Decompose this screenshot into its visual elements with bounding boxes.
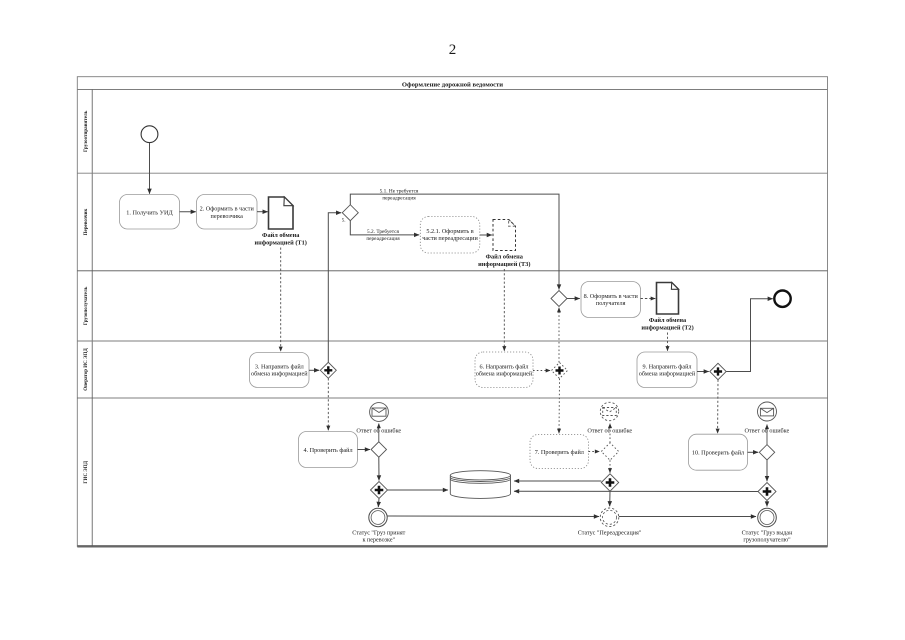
svg-text:ГИС ЭПД: ГИС ЭПД bbox=[84, 460, 89, 483]
svg-text:8. Оформить в части: 8. Оформить в части bbox=[584, 293, 639, 300]
wire task2 to doc T1 bbox=[257, 211, 268, 213]
wire task10 to gateway10 bbox=[748, 451, 759, 453]
svg-text:Оператор ИС ЭПД: Оператор ИС ЭПД bbox=[84, 348, 89, 391]
gateway-plus-6 bbox=[758, 483, 776, 501]
wire doc T3 to task6 (dotted) bbox=[503, 269, 505, 351]
task 2. Оформить в части перевозчика bbox=[197, 195, 258, 230]
svg-text:1. Получить УИД: 1. Получить УИД bbox=[126, 209, 173, 216]
label Статус Груз выдан грузополучателю bbox=[742, 531, 793, 544]
wire gateway-plus-2 up to lane3 gateway (dashed) bbox=[558, 308, 560, 363]
svg-text:Статус "Груз принят: Статус "Груз принят bbox=[352, 531, 405, 537]
message event 1 (Ответ об ошибке) bbox=[370, 403, 389, 422]
svg-text:Ответ об ошибке: Ответ об ошибке bbox=[356, 428, 401, 435]
wire gateway-plus-3 down to task10 (dotted) bbox=[717, 380, 719, 434]
wire gateway-plus-5 down to status2 bbox=[609, 491, 611, 506]
svg-text:грузополучателю": грузополучателю" bbox=[743, 538, 791, 544]
gateway-plus-3 bbox=[710, 363, 726, 379]
svg-text:6. Направить файл: 6. Направить файл bbox=[480, 363, 529, 370]
document T3 (dashed) bbox=[493, 220, 516, 251]
svg-text:Грузополучатель: Грузополучатель bbox=[84, 286, 89, 325]
task 5.2.1 Оформить в части переадресации (dashed) bbox=[420, 217, 480, 254]
end event bbox=[774, 291, 790, 307]
svg-text:5.2.1. Оформить в: 5.2.1. Оформить в bbox=[426, 228, 473, 235]
gateway-plus-2 (dashed) bbox=[552, 363, 568, 379]
svg-text:Статус "Груз выдан: Статус "Груз выдан bbox=[742, 531, 793, 537]
wire task7 to gateway7 (dashed) bbox=[589, 451, 600, 453]
svg-text:5.2. Требуется: 5.2. Требуется bbox=[367, 228, 399, 235]
svg-text:2. Оформить в части: 2. Оформить в части bbox=[200, 206, 255, 213]
svg-text:информацией (Т3): информацией (Т3) bbox=[478, 261, 530, 268]
svg-text:9. Направить файл: 9. Направить файл bbox=[643, 363, 692, 370]
wire doc T2 to task9 (dotted) bbox=[667, 333, 669, 351]
wire gateway7 up to message2 (dashed) bbox=[609, 424, 611, 443]
svg-text:информацией (Т1): информацией (Т1) bbox=[255, 240, 307, 247]
wire gateway4 down to gateway-plus-4 bbox=[378, 457, 380, 480]
wire task6 to gateway-plus-2 (dashed) bbox=[533, 370, 550, 372]
task 1. Получить УИД bbox=[120, 195, 180, 230]
wire gateway4 up to message1 bbox=[378, 424, 380, 442]
wire task8 to doc T2 (dashed) bbox=[641, 298, 656, 300]
message event 3 (Ответ об ошибке) bbox=[758, 402, 777, 421]
datastore cylinder bbox=[450, 471, 510, 499]
svg-text:обмена информацией: обмена информацией bbox=[639, 370, 696, 377]
status event 3 (double circle) bbox=[758, 508, 777, 527]
task 9. Направить файл обмена информацией bbox=[637, 352, 697, 388]
wire gateway-plus-1 up to gateway 5 bbox=[328, 213, 341, 363]
label Статус Груз принят к перевозке bbox=[352, 531, 405, 544]
gateway7 (dashed) bbox=[601, 443, 618, 460]
svg-text:Перевозчик: Перевозчик bbox=[84, 208, 89, 235]
svg-text:7. Проверить файл: 7. Проверить файл bbox=[535, 449, 584, 456]
status event 2 dashed (double circle) bbox=[600, 508, 619, 527]
task 7. Проверить файл (dashed) bbox=[530, 435, 589, 469]
wire task4 to gateway4 bbox=[358, 449, 371, 451]
wire gateway10 down to gateway-plus-6 bbox=[766, 460, 768, 481]
wire gateway-plus-3 to end event bbox=[726, 299, 773, 372]
task 3. Направить файл обмена информацией bbox=[250, 353, 310, 388]
task 4. Проверить файл bbox=[299, 432, 358, 468]
svg-text:обмена информацией: обмена информацией bbox=[476, 370, 533, 377]
label Файл обмена информацией (Т1) bbox=[255, 232, 307, 247]
gateway-plus-5 bbox=[601, 474, 618, 491]
svg-text:части переадресации: части переадресации bbox=[422, 235, 478, 242]
svg-text:получателя: получателя bbox=[596, 300, 626, 307]
svg-text:к перевозке": к перевозке" bbox=[363, 538, 396, 544]
svg-text:5.: 5. bbox=[342, 219, 346, 224]
wire 5.1 branch to lane3 gateway bbox=[350, 194, 559, 289]
message event 2 dashed (Ответ об ошибке) bbox=[600, 402, 618, 420]
svg-text:обмена информацией: обмена информацией bbox=[251, 370, 308, 377]
svg-text:4. Проверить файл: 4. Проверить файл bbox=[303, 447, 352, 454]
svg-text:Статус "Переадресация": Статус "Переадресация" bbox=[578, 530, 642, 536]
wire task 5.2.1 to doc T3 bbox=[480, 234, 492, 236]
start event bbox=[141, 126, 158, 143]
svg-text:Файл обмена: Файл обмена bbox=[262, 232, 300, 239]
wire status1 to status2 bbox=[387, 515, 599, 518]
wire gateway-plus-6 to datastore bbox=[514, 490, 758, 492]
svg-text:переадресация: переадресация bbox=[382, 196, 416, 202]
wire gateway-plus-4 to datastore bbox=[388, 489, 449, 491]
document T1 bbox=[269, 197, 294, 229]
svg-text:Ответ об ошибке: Ответ об ошибке bbox=[745, 427, 790, 434]
label Файл обмена информацией (Т3) bbox=[478, 254, 530, 269]
wire 5.2 branch to task 5.2.1 bbox=[350, 221, 419, 235]
pool frame bbox=[77, 77, 827, 547]
svg-text:Ответ об ошибке: Ответ об ошибке bbox=[587, 428, 632, 435]
svg-text:10. Проверить файл: 10. Проверить файл bbox=[692, 449, 744, 456]
wire gateway-plus-5 to datastore bbox=[514, 480, 601, 482]
svg-text:Грузоотправитель: Грузоотправитель bbox=[84, 110, 89, 152]
task 6. Направить файл обмена информацией (dashed) bbox=[475, 352, 533, 388]
wire task3 to gateway-plus-1 bbox=[309, 369, 319, 371]
svg-text:Файл обмена: Файл обмена bbox=[486, 254, 524, 261]
document T2 bbox=[657, 283, 679, 315]
gateway10 bbox=[759, 445, 774, 460]
wire start to task1 bbox=[149, 143, 151, 194]
svg-text:2: 2 bbox=[449, 42, 457, 58]
svg-text:3. Направить файл: 3. Направить файл bbox=[255, 363, 304, 370]
gateway-plus-4 bbox=[371, 482, 388, 499]
gateway-plus-1 bbox=[320, 362, 336, 378]
svg-text:5.1. Не требуется: 5.1. Не требуется bbox=[380, 188, 419, 195]
task 10. Проверить файл bbox=[689, 434, 748, 470]
wire task9 to gateway-plus-3 bbox=[697, 371, 709, 373]
wire doc T1 to task3 (dotted) bbox=[280, 248, 282, 352]
label Файл обмена информацией (Т2) bbox=[641, 317, 693, 332]
gateway lane3 merge bbox=[551, 291, 567, 307]
svg-text:Файл обмена: Файл обмена bbox=[649, 317, 687, 324]
wire gateway-plus-1 down to task4 (dotted) bbox=[327, 378, 329, 430]
wire gateway-plus-6 down to status3 bbox=[766, 501, 768, 507]
gateway 5 bbox=[342, 205, 359, 224]
gateway4 bbox=[371, 442, 386, 457]
status event 1 (double circle) bbox=[369, 508, 387, 526]
wire gateway7 down to gateway-plus-5 (dashed) bbox=[609, 460, 611, 473]
svg-text:Оформление дорожной ведомости: Оформление дорожной ведомости bbox=[402, 82, 503, 89]
wire task1 to task2 bbox=[180, 211, 196, 213]
wire gateway10 up to message3 bbox=[766, 425, 768, 445]
label 5.2. Требуется переадресация bbox=[366, 228, 400, 242]
svg-text:информацией (Т2): информацией (Т2) bbox=[641, 325, 693, 332]
label 5.1. Не требуется переадресация bbox=[380, 188, 419, 202]
svg-text:переадресация: переадресация bbox=[366, 236, 400, 242]
wire status2 to status3 bbox=[619, 516, 756, 518]
wire gateway-plus-2 down to task7 (dashed) bbox=[558, 379, 561, 434]
svg-text:перевозчика: перевозчика bbox=[211, 213, 244, 220]
task 8. Оформить в части получателя bbox=[581, 282, 641, 318]
wire gateway-plus-4 down to status1 bbox=[377, 499, 380, 508]
wire lane3 gateway to task8 bbox=[567, 298, 580, 300]
